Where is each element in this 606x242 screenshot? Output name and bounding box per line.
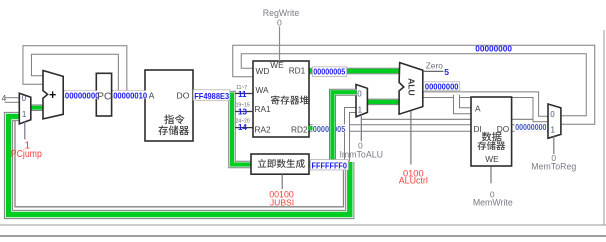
svg-text:0: 0 [550,110,555,119]
svg-text:00000000: 00000000 [475,44,512,53]
svg-text:ALUctrl: ALUctrl [399,175,428,185]
svg-text:JUBSI: JUBSI [270,198,294,208]
svg-text:WE: WE [270,60,284,70]
svg-text:RD1: RD1 [289,66,306,76]
svg-text:PCjump: PCjump [11,149,42,160]
svg-text:FF4988E3: FF4988E3 [194,92,229,101]
svg-text:00000000: 00000000 [425,83,459,92]
svg-text:11~7: 11~7 [236,85,247,91]
svg-text:ImmToALU: ImmToALU [339,150,383,160]
svg-text:DI: DI [474,124,482,134]
svg-text:0: 0 [490,189,495,199]
svg-text:1: 1 [22,110,27,119]
svg-text:0: 0 [277,17,282,27]
svg-text:WD: WD [256,66,270,76]
svg-text:MemToReg: MemToReg [531,162,576,172]
svg-text:0: 0 [551,153,556,163]
svg-text:4: 4 [2,93,7,103]
svg-text:A: A [149,90,155,100]
svg-text:PC: PC [97,91,111,102]
svg-text:RA2: RA2 [255,124,272,134]
svg-text:24~20: 24~20 [236,119,250,125]
svg-text:1: 1 [358,105,363,114]
svg-text:Zero: Zero [426,61,444,71]
svg-text:0: 0 [358,140,363,150]
svg-text:00000005: 00000005 [313,68,345,77]
svg-text:A: A [475,103,481,113]
svg-text:00000000: 00000000 [65,91,100,100]
svg-text:5: 5 [444,67,449,77]
svg-text:19~15: 19~15 [236,103,250,109]
svg-text:13: 13 [238,107,247,116]
svg-text:ALU: ALU [407,78,417,96]
svg-text:FFFFFFF0: FFFFFFF0 [312,161,348,170]
svg-text:0: 0 [357,90,362,99]
svg-text:00000010: 00000010 [113,92,147,101]
svg-text:+: + [49,88,56,102]
svg-text:00000000: 00000000 [515,123,547,132]
svg-text:1: 1 [551,125,556,134]
svg-text:DO: DO [177,90,190,100]
svg-text:RD2: RD2 [291,124,308,134]
svg-text:RA1: RA1 [255,104,272,114]
svg-text:WA: WA [256,85,270,95]
svg-text:WE: WE [485,154,499,164]
svg-text:0: 0 [22,94,27,103]
